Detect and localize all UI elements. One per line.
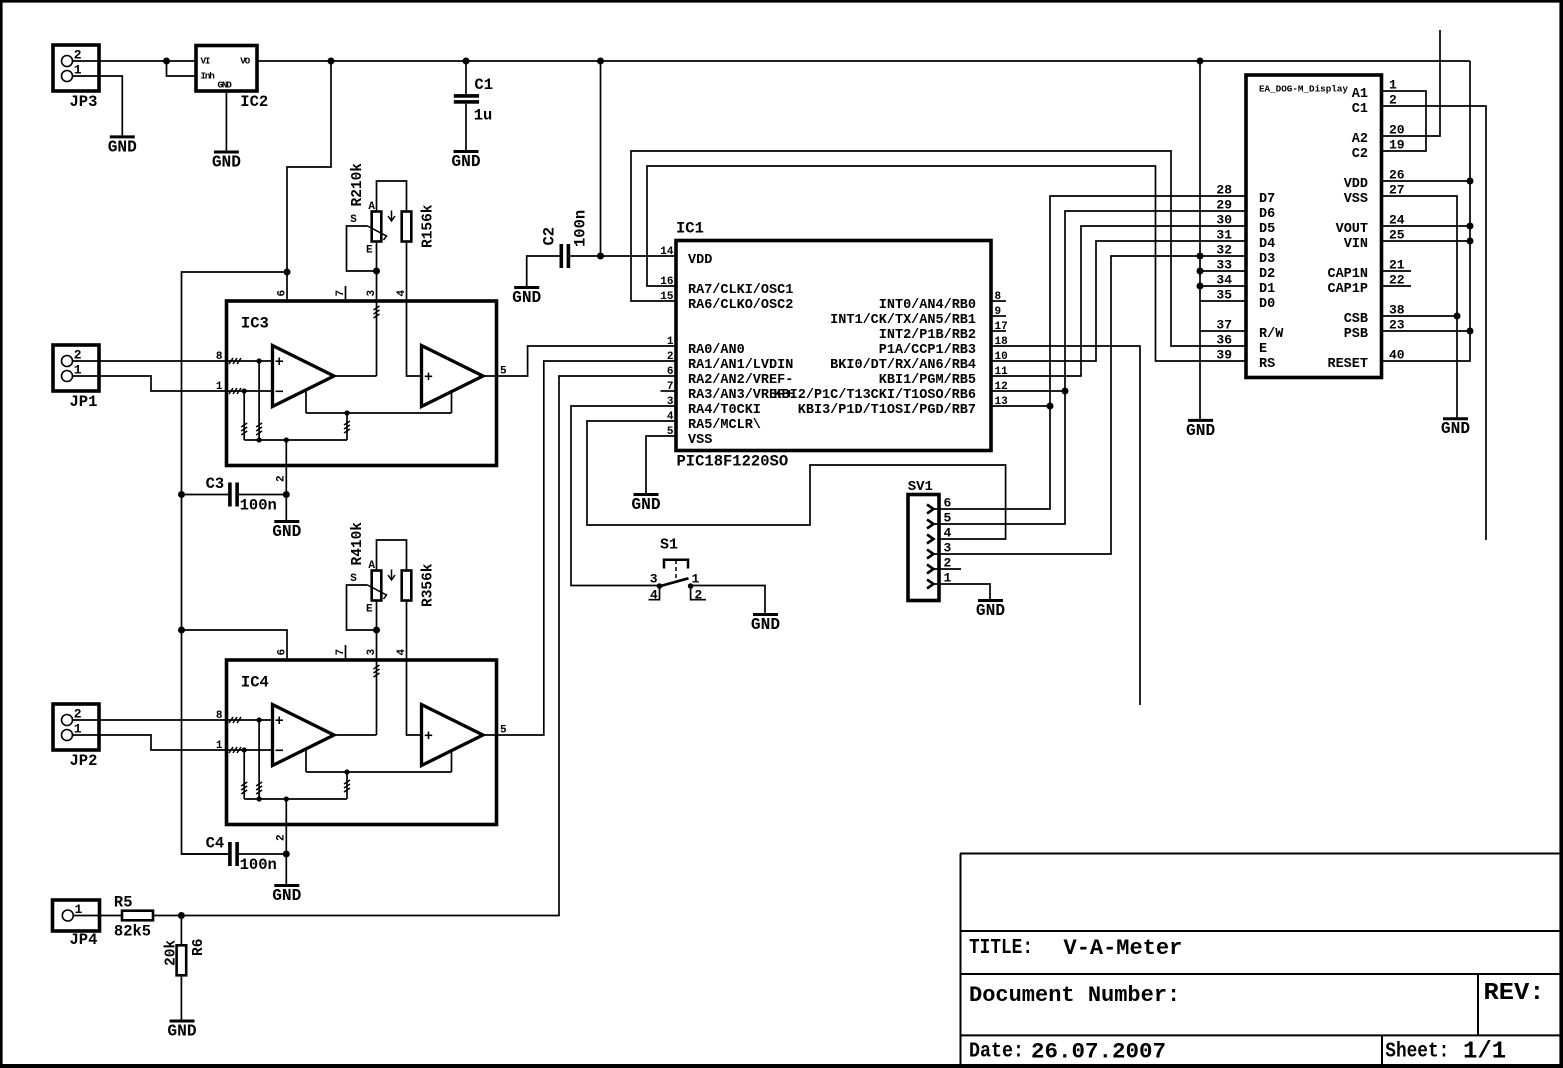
svg-text:A: A xyxy=(368,201,375,213)
capacitor C2 xyxy=(560,244,564,268)
svg-text:2: 2 xyxy=(695,588,703,603)
IC3 op-amp B xyxy=(422,346,484,407)
wire display A1 to C2 backlight xyxy=(1382,91,1427,151)
wire IC1 pin3 RA4 to S1 xyxy=(571,406,676,586)
svg-text:INT1/CK/TX/AN5/RB1: INT1/CK/TX/AN5/RB1 xyxy=(830,313,976,328)
wire IC1 pin4 MCLR to SV1 pin4 xyxy=(587,421,1006,539)
svg-text:7: 7 xyxy=(335,290,347,297)
svg-text:1: 1 xyxy=(216,381,223,393)
svg-text:CAP1P: CAP1P xyxy=(1327,282,1368,297)
svg-text:R/W: R/W xyxy=(1259,327,1284,342)
svg-text:VSS: VSS xyxy=(1344,192,1368,207)
IC1 pin 17 stub xyxy=(991,330,1006,332)
IC1 pin 9 stub xyxy=(991,315,1006,317)
IC3 feedback riser xyxy=(346,413,348,440)
R210k wiper diagonal xyxy=(368,226,387,240)
svg-text:82k5: 82k5 xyxy=(114,923,151,941)
IC3 inner wire plus drop xyxy=(258,361,260,440)
IC4 feedback riser xyxy=(346,772,348,799)
display D1 stub xyxy=(1200,285,1246,287)
svg-text:30: 30 xyxy=(1216,213,1232,228)
svg-text:GND: GND xyxy=(167,1022,196,1040)
svg-text:GND: GND xyxy=(451,153,480,171)
svg-text:A1: A1 xyxy=(1352,87,1368,102)
svg-text:6: 6 xyxy=(277,649,289,656)
S1 actuator link dashed xyxy=(675,560,677,581)
svg-text:CSB: CSB xyxy=(1344,312,1368,327)
svg-text:D2: D2 xyxy=(1259,267,1275,282)
svg-text:RESET: RESET xyxy=(1327,357,1368,372)
svg-text:D1: D1 xyxy=(1259,282,1275,297)
svg-text:Document Number:: Document Number: xyxy=(969,983,1180,1008)
title block frame xyxy=(960,853,1560,855)
wire SV1 pin3 to display D3 xyxy=(934,256,1247,554)
connector JP4 xyxy=(53,900,100,931)
trimmer R210k xyxy=(372,212,382,242)
IC4 opampA output wire xyxy=(334,734,377,736)
R356k bottom wire to pin4 xyxy=(406,601,408,661)
S1 contact 1 xyxy=(688,583,694,589)
display R/W stub xyxy=(1200,330,1246,332)
wire IC3 out to IC1 pin1 xyxy=(483,346,676,376)
node junction IC3 pin6 branch xyxy=(284,269,291,276)
svg-text:KBI3/P1D/T1OSI/PGD/RB7: KBI3/P1D/T1OSI/PGD/RB7 xyxy=(798,403,976,418)
wire display VSS to GND xyxy=(1382,196,1458,418)
IC3 pin 2 wire xyxy=(285,440,287,495)
wire IC4 pin6 branch xyxy=(182,630,288,660)
IC3 op-amp A xyxy=(273,346,335,407)
IC3 pin 8 inner wire xyxy=(228,360,272,362)
wire SV1 pin6 to IC1 pin13 and display D7 xyxy=(934,196,1247,509)
IC4 pin 4 inner wire xyxy=(407,660,422,735)
svg-text:32: 32 xyxy=(1216,243,1232,258)
wire IC1 pin12 to SV1 pin5 and display D6 xyxy=(991,390,1065,392)
ground GND display VSS xyxy=(1443,417,1468,420)
capacitor C3 xyxy=(182,494,230,496)
svg-text:20k: 20k xyxy=(163,940,179,966)
wire SV1 pin5 to IC1 pin12 and display D6 xyxy=(934,211,1247,524)
svg-text:R210k: R210k xyxy=(350,163,366,207)
svg-text:E: E xyxy=(1259,342,1267,357)
svg-text:Sheet:: Sheet: xyxy=(1385,1041,1449,1064)
svg-text:IC2: IC2 xyxy=(240,93,268,111)
IC3 pin 1 inner wire xyxy=(228,390,272,392)
wire IC2 GND pin xyxy=(225,91,227,152)
LCD module EA DOG-M display xyxy=(1246,75,1382,378)
svg-text:D5: D5 xyxy=(1259,222,1275,237)
svg-text:C3: C3 xyxy=(206,475,225,493)
svg-text:D0: D0 xyxy=(1259,297,1275,312)
display CAP1N stub xyxy=(1382,270,1412,272)
SV1 pin 1 wire to GND xyxy=(934,584,991,600)
svg-text:C1: C1 xyxy=(474,76,493,94)
resistor R5 xyxy=(122,911,153,921)
wire JP1 pin1 to IC3 pin1 xyxy=(73,376,228,391)
ground GND display data xyxy=(1188,419,1213,422)
ground GND R6 xyxy=(170,1020,195,1023)
node junction VDD drop to IC1 xyxy=(597,58,604,65)
S1 pin 4 stub xyxy=(649,586,660,600)
SV1 pin 1 xyxy=(927,580,934,589)
svg-text:E: E xyxy=(366,244,373,256)
wire R6 top xyxy=(180,916,182,946)
node junction C4/IC4 pin2 xyxy=(283,851,290,858)
R410k wiper wire S xyxy=(347,585,377,630)
svg-text:S: S xyxy=(350,214,357,226)
wire display CSB xyxy=(1382,315,1458,317)
svg-text:28: 28 xyxy=(1216,183,1232,198)
svg-text:VI: VI xyxy=(201,56,210,67)
IC3 opampA output wire xyxy=(334,375,377,377)
IC4 pin 7 stub xyxy=(345,645,347,660)
svg-text:RA4/T0CKI: RA4/T0CKI xyxy=(688,403,761,418)
wire IC4 pin2 to GND xyxy=(285,854,287,885)
svg-text:3: 3 xyxy=(650,572,658,587)
microcontroller IC1 PIC18F1220 xyxy=(676,241,991,451)
svg-text:D6: D6 xyxy=(1259,207,1275,222)
display D2 stub xyxy=(1200,270,1246,272)
svg-text:PSB: PSB xyxy=(1344,327,1368,342)
IC3 inner wire minus drop xyxy=(243,391,245,440)
svg-text:6: 6 xyxy=(277,290,289,297)
svg-text:IC3: IC3 xyxy=(241,315,269,333)
svg-text:INT0/AN4/RB0: INT0/AN4/RB0 xyxy=(879,298,976,313)
ground GND IC2 xyxy=(214,151,239,154)
wire JP2 pin2 to IC4 pin8 xyxy=(73,719,228,721)
svg-text:VSS: VSS xyxy=(688,433,712,448)
svg-text:1: 1 xyxy=(667,336,674,348)
wire S1 pin1 to GND xyxy=(691,586,765,615)
svg-text:IC1: IC1 xyxy=(676,220,704,238)
svg-text:1u: 1u xyxy=(474,107,493,125)
svg-text:VDD: VDD xyxy=(688,253,712,268)
ground GND C4 xyxy=(274,884,299,887)
svg-text:INT2/P1B/RB2: INT2/P1B/RB2 xyxy=(879,328,976,343)
wire VDD top rail xyxy=(257,60,1470,62)
svg-text:GND: GND xyxy=(1186,422,1215,440)
wire IC1 pin15 RA6 to display E xyxy=(631,151,1246,346)
capacitor C1 xyxy=(465,61,467,94)
op-amp block IC4 xyxy=(227,660,497,825)
svg-text:PIC18F1220SO: PIC18F1220SO xyxy=(677,453,789,471)
resistor R156k xyxy=(402,212,412,242)
connector JP2 xyxy=(53,704,99,750)
R410k top wire xyxy=(377,540,407,571)
ground GND IC1 VSS xyxy=(634,493,659,496)
svg-text:VDD: VDD xyxy=(1344,177,1368,192)
wire IC3 pin2 to GND xyxy=(285,495,287,522)
wire JP2 pin1 to IC4 pin1 xyxy=(73,735,228,750)
svg-text:P1A/CCP1/RB3: P1A/CCP1/RB3 xyxy=(879,343,976,358)
R210k top wire xyxy=(377,181,407,212)
node junction C3/IC3 pin2 xyxy=(283,491,290,498)
IC3 inner bottom wire xyxy=(244,439,347,441)
svg-text:C2: C2 xyxy=(541,227,559,246)
svg-text:BKI0/DT/RX/AN6/RB4: BKI0/DT/RX/AN6/RB4 xyxy=(830,358,976,373)
ground GND C3 xyxy=(274,520,299,523)
wire JP1 pin2 to IC3 pin8 xyxy=(73,360,228,362)
S1 contact 3 xyxy=(657,583,663,589)
wire C2 left to GND xyxy=(527,256,560,287)
R210k bottom wire to pin3 xyxy=(376,242,378,302)
svg-text:31: 31 xyxy=(1216,228,1232,243)
svg-text:S: S xyxy=(350,573,357,585)
svg-text:100n: 100n xyxy=(572,210,590,247)
node junction R410k wiper xyxy=(373,627,380,634)
svg-text:A2: A2 xyxy=(1352,132,1368,147)
svg-text:D3: D3 xyxy=(1259,252,1275,267)
wire IC4 out to IC1 pin2 xyxy=(483,361,676,735)
node junction JP3/Inh xyxy=(163,58,170,65)
IC3 pin 7 stub xyxy=(345,286,347,301)
IC4 inner wire plus drop xyxy=(258,720,260,799)
wire left vertical rail xyxy=(182,272,288,854)
IC4 pin 2 wire xyxy=(285,799,287,854)
IC4 pin 8 inner wire xyxy=(228,719,272,721)
S1 actuator bracket xyxy=(664,560,688,569)
svg-text:36: 36 xyxy=(1216,333,1232,348)
svg-text:JP2: JP2 xyxy=(70,752,98,770)
node junction C3 tap xyxy=(178,491,185,498)
svg-text:V-A-Meter: V-A-Meter xyxy=(1064,936,1183,961)
SV1 pin 2 xyxy=(927,565,934,574)
svg-text:R410k: R410k xyxy=(350,522,366,566)
IC4 pin 1 inner wire xyxy=(228,749,272,751)
svg-text:RA5/MCLR\: RA5/MCLR\ xyxy=(688,418,761,433)
wire R5 to divider node xyxy=(153,915,181,917)
wire display RESET to VDD rail xyxy=(1382,61,1471,361)
wire IC1 pin5 VSS to GND xyxy=(646,436,676,494)
svg-text:JP3: JP3 xyxy=(70,93,98,111)
IC4 op-amp B xyxy=(422,705,484,766)
node junction pin13 xyxy=(1047,403,1054,410)
R210k wiper wire S xyxy=(347,226,377,271)
svg-text:GND: GND xyxy=(272,887,301,905)
svg-text:D7: D7 xyxy=(1259,192,1275,207)
R410k adjust arrow xyxy=(388,570,395,581)
node junction R210k wiper xyxy=(373,268,380,275)
svg-text:SV1: SV1 xyxy=(908,479,933,495)
IC3 pin 4 inner wire xyxy=(407,301,422,376)
SV1 pin 4 xyxy=(927,535,934,544)
IC3 feedback wire xyxy=(306,412,452,414)
svg-text:GND: GND xyxy=(212,153,241,171)
node junction pin12 xyxy=(1062,388,1069,395)
wire VO to IC3 pin6 xyxy=(287,61,331,301)
wire Inh drop xyxy=(167,61,197,76)
JP3 pad 2 xyxy=(62,56,73,67)
wire IC1 pin11 to display D5 xyxy=(991,226,1246,376)
svg-text:8: 8 xyxy=(216,351,223,363)
IC4 pin 3 inner wire xyxy=(376,660,378,735)
SV1 pin 5 xyxy=(927,520,934,529)
svg-text:C2: C2 xyxy=(1352,147,1368,162)
IC4 feedback wire xyxy=(306,771,452,773)
svg-text:4: 4 xyxy=(944,526,952,541)
node junction R5/R6 xyxy=(178,912,185,919)
resistor R6 xyxy=(177,945,187,975)
R410k bottom wire to pin3 xyxy=(376,601,378,661)
JP3 pad 1 xyxy=(62,71,73,82)
wire display data gnd rail xyxy=(1199,61,1201,420)
svg-text:E: E xyxy=(366,603,373,615)
ground GND C2 xyxy=(514,286,539,289)
wire R6 to GND xyxy=(180,975,182,1020)
SV1 pin 6 xyxy=(927,505,934,514)
svg-text:GND: GND xyxy=(218,80,233,91)
wire IC1 pin18 RB3 xyxy=(991,346,1140,705)
svg-text:RA1/AN1/LVDIN: RA1/AN1/LVDIN xyxy=(688,358,793,373)
svg-text:CAP1N: CAP1N xyxy=(1327,267,1368,282)
svg-text:1: 1 xyxy=(216,740,223,752)
ground GND JP3 xyxy=(110,135,135,138)
R410k wiper diagonal xyxy=(368,585,387,599)
node junction D3 gnd rail xyxy=(1197,253,1204,260)
connector JP3 xyxy=(53,45,99,91)
IC1 pin 7 stub xyxy=(661,390,677,392)
svg-text:D4: D4 xyxy=(1259,237,1275,252)
svg-text:A: A xyxy=(368,560,375,572)
display CAP1P stub xyxy=(1382,285,1412,287)
svg-text:R156k: R156k xyxy=(421,204,437,248)
svg-text:C4: C4 xyxy=(206,835,225,853)
IC3 pin 3 inner wire xyxy=(376,301,378,376)
svg-text:2: 2 xyxy=(74,48,82,63)
wire VDD top rail left xyxy=(73,60,197,62)
ground GND C1 xyxy=(454,150,479,153)
svg-text:VIN: VIN xyxy=(1344,237,1368,252)
connector JP1 xyxy=(53,345,99,391)
IC4 op-amp A xyxy=(273,705,335,766)
wire JP4 to R5 xyxy=(73,915,122,917)
node junction C1 xyxy=(463,58,470,65)
svg-text:14: 14 xyxy=(660,246,674,258)
node junction CSB xyxy=(1454,313,1461,320)
svg-text:KBI1/PGM/RB5: KBI1/PGM/RB5 xyxy=(879,373,976,388)
svg-text:100n: 100n xyxy=(240,856,277,874)
svg-text:100n: 100n xyxy=(240,497,277,515)
wire display PSB xyxy=(1382,330,1471,332)
SV1 pin 2 stub xyxy=(934,568,962,570)
wire display VIN xyxy=(1382,240,1471,242)
svg-text:RA0/AN0: RA0/AN0 xyxy=(688,343,745,358)
wire IC1 pin13 to SV1 pin6 and display D7 xyxy=(991,405,1050,407)
svg-text:C1: C1 xyxy=(1352,102,1368,117)
wire C2 to IC1 pin 14 xyxy=(570,255,676,257)
svg-text:EA_DOG-M_Display: EA_DOG-M_Display xyxy=(1259,84,1348,95)
S1 pin 2 stub xyxy=(691,586,706,600)
svg-text:RA6/CLKO/OSC2: RA6/CLKO/OSC2 xyxy=(688,298,793,313)
op-amp block IC3 xyxy=(227,301,497,466)
wire display A2 up xyxy=(1382,30,1441,136)
capacitor C4 xyxy=(182,853,230,855)
ground GND S1 xyxy=(753,613,778,616)
connector SV1 xyxy=(908,495,939,601)
svg-text:GND: GND xyxy=(108,138,137,156)
wire display C1 down xyxy=(1382,106,1487,540)
wire display VOUT xyxy=(1382,225,1471,227)
svg-text:RA7/CLKI/OSC1: RA7/CLKI/OSC1 xyxy=(688,283,793,298)
svg-text:R356k: R356k xyxy=(421,563,437,607)
svg-text:GND: GND xyxy=(631,496,660,514)
node junction VDD26 xyxy=(1467,178,1474,185)
svg-text:1/1: 1/1 xyxy=(1463,1039,1506,1066)
svg-text:GND: GND xyxy=(751,616,780,634)
svg-text:RA2/AN2/VREF-: RA2/AN2/VREF- xyxy=(688,373,793,388)
ground GND SV1 xyxy=(978,599,1003,602)
svg-text:R5: R5 xyxy=(114,894,133,912)
wire display VDD to VDD rail xyxy=(1382,180,1471,182)
svg-text:GND: GND xyxy=(976,602,1005,620)
svg-text:Inh: Inh xyxy=(201,71,216,82)
border frame xyxy=(0,0,1563,3)
node junction D1 xyxy=(1197,283,1204,290)
svg-text:TITLE:: TITLE: xyxy=(969,937,1033,960)
voltage regulator IC2 xyxy=(196,46,257,92)
svg-text:8: 8 xyxy=(216,710,223,722)
svg-text:GND: GND xyxy=(272,523,301,541)
wire divider to IC1 pin6 xyxy=(181,376,676,916)
wire VDD to IC1 pin14 xyxy=(600,61,602,256)
svg-text:RS: RS xyxy=(1259,357,1275,372)
IC4 inner wire minus drop xyxy=(243,750,245,799)
trimmer R410k xyxy=(372,571,382,601)
svg-text:1: 1 xyxy=(692,572,700,587)
wire IC1 pin16 RA7 to display RS xyxy=(647,166,1246,361)
IC4 inner bottom wire xyxy=(244,798,347,800)
display D0 stub xyxy=(1200,300,1246,302)
svg-text:VOUT: VOUT xyxy=(1336,222,1368,237)
svg-text:KBI2/P1C/T13CKI/T1OSO/RB6: KBI2/P1C/T13CKI/T1OSO/RB6 xyxy=(773,388,976,403)
S1 contact arm xyxy=(661,578,689,586)
svg-text:Date:: Date: xyxy=(969,1041,1024,1064)
node junction D2 xyxy=(1197,268,1204,275)
resistor R356k xyxy=(402,571,412,601)
svg-text:2: 2 xyxy=(667,351,674,363)
node junction VO/IC3 branch xyxy=(328,58,335,65)
node junction gnd rail top xyxy=(1197,58,1204,65)
SV1 pin 3 xyxy=(927,550,934,559)
svg-text:6: 6 xyxy=(667,366,674,378)
svg-text:IC4: IC4 xyxy=(241,674,269,692)
svg-text:JP1: JP1 xyxy=(70,393,98,411)
R210k adjust arrow xyxy=(388,211,395,222)
svg-text:JP4: JP4 xyxy=(70,931,98,949)
wire IC1 pin10 to display D4 xyxy=(991,241,1246,361)
node junction IC4 pin6 branch xyxy=(178,627,185,634)
svg-text:4: 4 xyxy=(650,588,658,603)
svg-text:26.07.2007: 26.07.2007 xyxy=(1031,1039,1166,1065)
svg-text:39: 39 xyxy=(1216,348,1232,363)
svg-text:R6: R6 xyxy=(191,939,207,956)
svg-text:REV:: REV: xyxy=(1484,980,1545,1007)
svg-text:7: 7 xyxy=(335,649,347,656)
R156k bottom wire to pin4 xyxy=(406,242,408,302)
svg-text:GND: GND xyxy=(1441,420,1470,438)
wire JP3 pin1 to GND xyxy=(73,76,123,136)
svg-text:GND: GND xyxy=(512,289,541,307)
IC1 pin 8 stub xyxy=(991,300,1006,302)
svg-text:S1: S1 xyxy=(660,537,678,554)
svg-text:29: 29 xyxy=(1216,198,1232,213)
